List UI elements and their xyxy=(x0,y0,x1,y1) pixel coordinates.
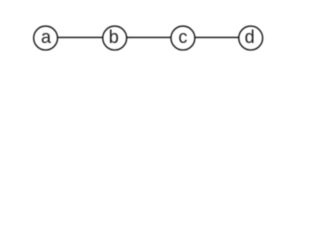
node b xyxy=(103,26,127,50)
svg-text:c: c xyxy=(178,27,187,47)
svg-text:b: b xyxy=(109,27,119,47)
wire c-d xyxy=(195,36,240,38)
node c xyxy=(171,26,195,50)
wire b-c xyxy=(127,36,171,38)
svg-text:a: a xyxy=(41,27,52,47)
svg-text:d: d xyxy=(245,27,255,47)
wire a-b xyxy=(58,36,103,38)
node d xyxy=(239,26,263,50)
node a xyxy=(34,26,58,50)
